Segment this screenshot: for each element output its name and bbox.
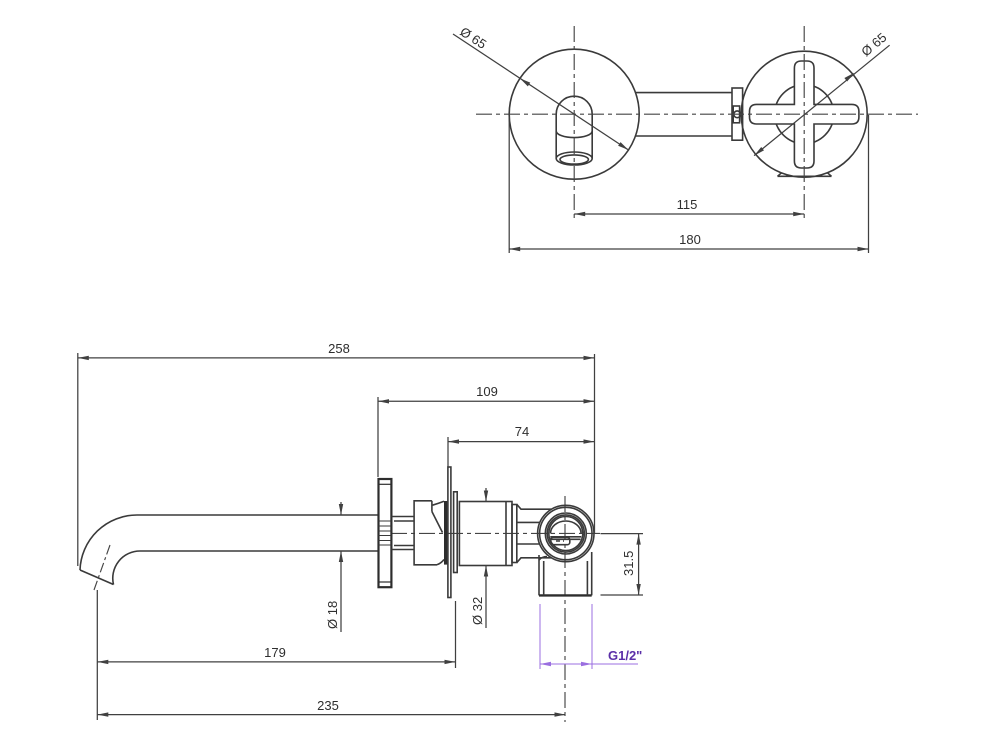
collar <box>512 505 517 563</box>
spout outlet front view <box>556 96 592 165</box>
right escutcheon circle <box>741 51 867 177</box>
elbow body outline <box>538 505 594 595</box>
wall flange side view <box>379 479 392 587</box>
svg-text:109: 109 <box>476 384 498 399</box>
dimension Ø18 <box>339 502 343 632</box>
dimension 115 <box>574 212 804 216</box>
dimension 235 <box>97 712 565 716</box>
sleeve body <box>414 501 446 565</box>
valve nut <box>517 504 552 562</box>
dimension Ø32 <box>484 488 488 628</box>
dimension 258 <box>78 353 595 566</box>
dimension Ø65 right <box>753 45 890 157</box>
spout tip extension line <box>96 590 98 720</box>
svg-text:G1/2": G1/2" <box>608 648 642 663</box>
dimension G1/2 (violet) <box>540 604 638 669</box>
svg-text:180: 180 <box>679 232 701 247</box>
handle hub circle <box>775 85 834 144</box>
svg-text:258: 258 <box>328 341 350 356</box>
flange thread hatch <box>379 521 392 545</box>
threaded stem <box>391 517 413 550</box>
mounting bracket front view <box>732 88 743 140</box>
dimension Ø65 left <box>453 34 630 152</box>
secondary plate <box>454 492 458 573</box>
connecting pipe front view <box>635 93 732 136</box>
svg-text:Ø 32: Ø 32 <box>470 597 485 625</box>
svg-text:31.5: 31.5 <box>621 551 636 576</box>
main axis centerline side view <box>391 532 600 534</box>
centerline vertical right escutcheon <box>803 26 805 218</box>
centerline horizontal front view <box>476 113 918 115</box>
valve body cylinder Ø32 <box>459 502 512 566</box>
left escutcheon circle <box>509 49 639 179</box>
dimension 31.5 <box>601 534 644 595</box>
spout outlet axis centerline <box>94 545 110 590</box>
svg-text:74: 74 <box>515 424 529 439</box>
svg-text:115: 115 <box>677 197 698 212</box>
dimension 179 <box>97 601 455 668</box>
elbow port internal detail <box>550 521 581 545</box>
escutcheon base tabs <box>778 173 832 177</box>
svg-text:Ø 18: Ø 18 <box>325 601 340 629</box>
dimension 109 <box>378 397 595 477</box>
centerline vertical left escutcheon <box>573 26 575 218</box>
dimension 74 <box>448 437 595 467</box>
dimension 180 <box>509 115 868 253</box>
wall mounting plate <box>448 467 451 598</box>
svg-text:179: 179 <box>264 645 286 660</box>
cross handle <box>750 61 859 168</box>
spout side view <box>80 515 379 585</box>
svg-text:235: 235 <box>317 698 339 713</box>
elbow centerline vertical <box>564 496 566 722</box>
